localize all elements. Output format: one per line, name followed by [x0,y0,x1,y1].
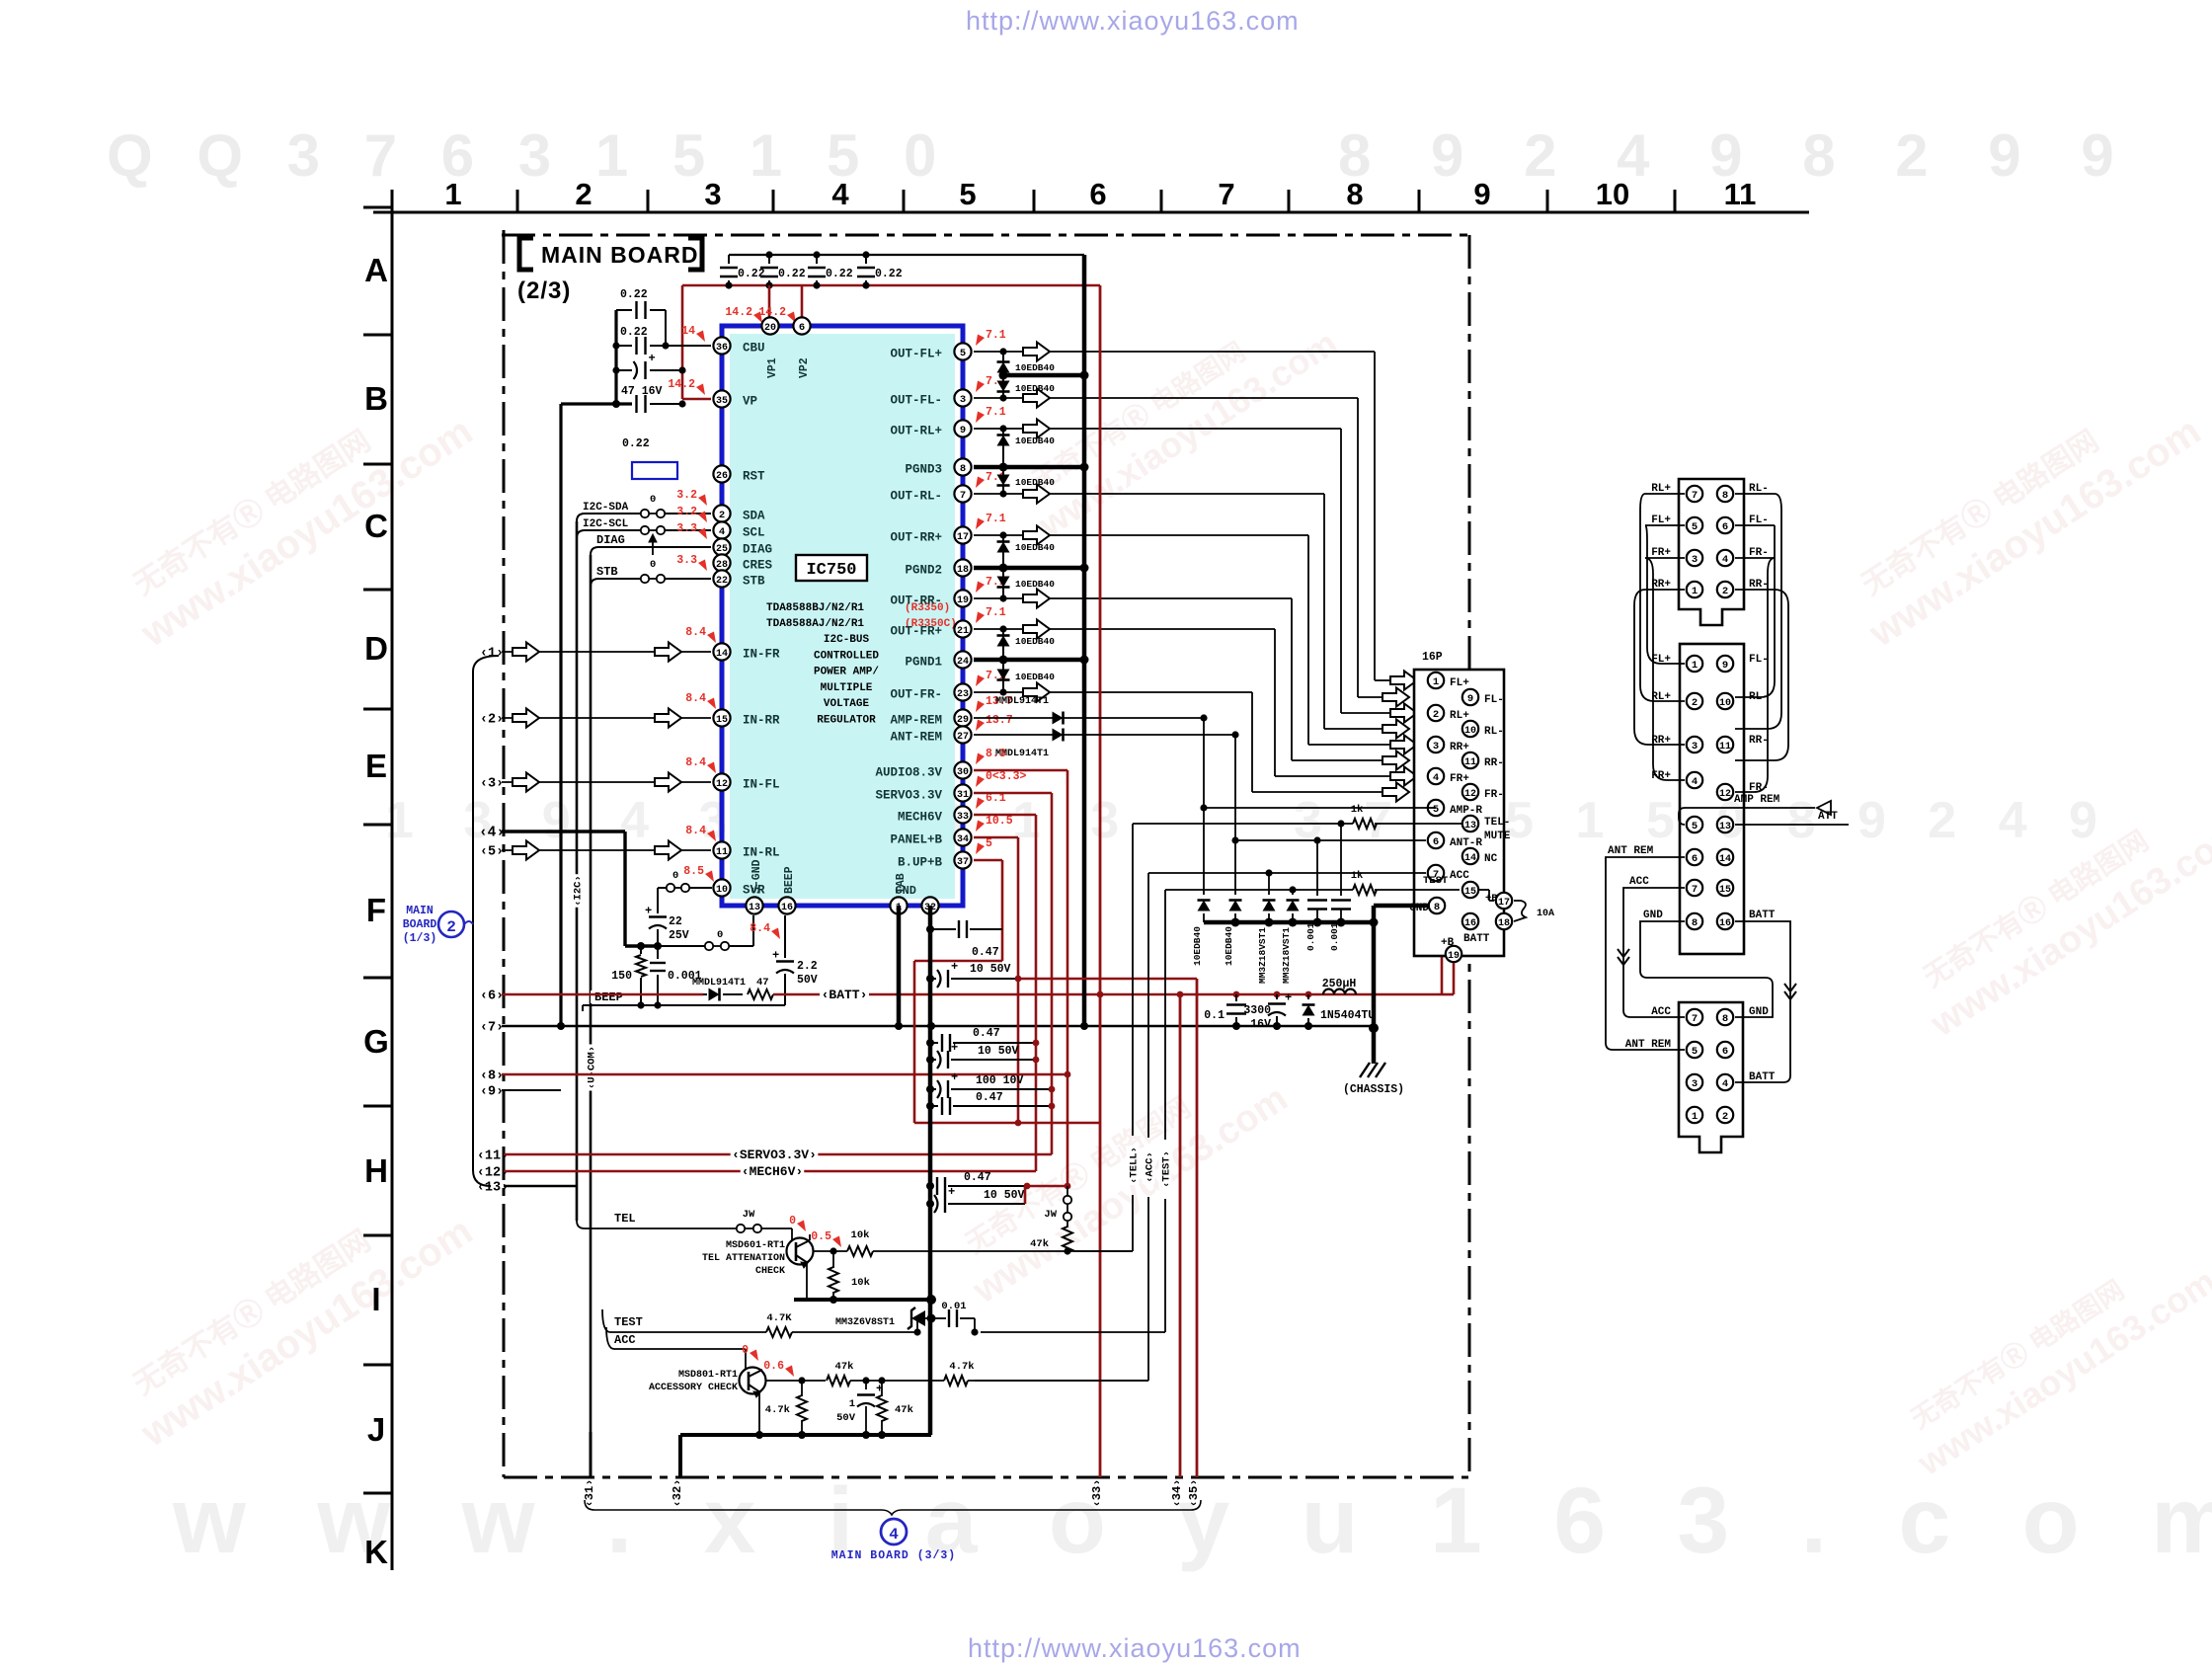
wire output row 7 to connector nest [974,628,1275,630]
red value 0.5 [832,1236,841,1248]
IC750 pin 35 VP [713,390,730,407]
bank diode 10EDB40 #1 [1203,718,1205,895]
wire DIAG to pin 25 [591,547,711,555]
svg-text:VP: VP [743,395,757,409]
red value 8.4 IN-RL [707,831,716,842]
svg-text:OUT-FR-: OUT-FR- [890,688,942,702]
transistor Q MSD801-RT1 ACC [740,1368,766,1394]
svg-text:7: 7 [1692,490,1698,502]
svg-text:ACC: ACC [1450,870,1469,882]
red value 0<3.3> SERVO3.3V [976,776,985,788]
IC750 pin 26 RST [713,465,730,482]
wire CBU to pin 36 [666,345,711,347]
svg-text:‹32›: ‹32› [671,1479,684,1508]
main board dash-dot border [502,234,1469,237]
bank zener MM3Z18VST1 #2 [1292,890,1294,895]
wire VP2 drop to pin 6 [801,285,804,326]
red value 0 TEL [797,1221,806,1232]
svg-text:0: 0 [672,870,678,882]
svg-text:0.47: 0.47 [973,1027,1000,1040]
svg-text:18: 18 [957,565,969,576]
svg-text:FR-: FR- [1749,782,1769,794]
svg-text:RR+: RR+ [1450,742,1469,753]
svg-text:28: 28 [716,560,728,571]
thick PGND2 bus wire [974,566,1084,571]
red value 3.3 DIAG [698,528,707,540]
svg-text:10EDB40: 10EDB40 [1015,383,1055,394]
svg-text:BEEP: BEEP [594,990,623,1004]
svg-text:9: 9 [1722,660,1728,672]
watermark diagonal 2 [1011,291,1345,545]
capacitor C 0.22 #1 top [728,255,730,264]
svg-text:‹2›: ‹2› [480,713,504,728]
svg-text:GND: GND [1749,1006,1769,1018]
bottom connector pins 7/8 [1687,1009,1702,1025]
IC750 pin 6 VP2 [793,317,810,334]
svg-text:RL+: RL+ [1450,710,1469,722]
svg-text:FR+: FR+ [1450,773,1469,785]
wire TEL-MUTE row with 1k [1375,823,1461,825]
svg-text:1k: 1k [1351,804,1364,816]
diode MMDL914T1 on ANT-REM [1053,729,1064,742]
wire input group vertical [473,656,499,1186]
svg-text:29: 29 [957,715,969,726]
wire top capacitor bus [729,254,1084,256]
svg-text:DIAG: DIAG [743,543,772,557]
16P pin 7 ACC [1428,865,1444,881]
capacitor 0.47 row3 [926,1102,934,1110]
svg-text:JW: JW [743,1209,755,1221]
bank zener MM3Z18VST1 #1 [1268,873,1270,895]
svg-text:S-GND: S-GND [750,859,763,894]
svg-text:0.22: 0.22 [622,437,650,450]
svg-text:http://www.xiaoyu163.com: http://www.xiaoyu163.com [968,1633,1302,1663]
mirror connector pin 1 [1687,656,1702,672]
svg-text:‹5›: ‹5› [480,845,504,860]
IC750 pin 36 CBU [713,337,730,354]
wire BATT down with chevron [1735,921,1790,1082]
bottom connector pins 3/4 [1687,1074,1702,1090]
svg-text:22: 22 [716,576,728,587]
svg-text:150: 150 [611,970,632,983]
svg-text:17: 17 [957,532,969,543]
svg-text:ANT REM: ANT REM [1608,845,1654,857]
svg-text:10 50V: 10 50V [984,1189,1025,1202]
svg-text:0.5: 0.5 [811,1230,831,1243]
red value 3.3 STB [698,560,707,572]
svg-text:OUT-RL-: OUT-RL- [890,490,942,504]
svg-text:MSD601-RT1: MSD601-RT1 [726,1240,785,1251]
svg-text:CRES: CRES [743,559,773,573]
svg-text:6: 6 [1692,853,1698,865]
svg-text:JW: JW [1044,1209,1057,1221]
wire VP red vertical to pin 35 [681,285,684,399]
wire ANT-REM row [974,734,1235,736]
red value 0 ACC [750,1350,758,1362]
capacitor 0.1 [1235,994,1237,1001]
svg-text:FL-: FL- [1484,694,1504,706]
svg-text:+: + [1285,991,1292,1005]
svg-text:16V: 16V [1250,1018,1271,1031]
mirror connector pin 12 right [1717,784,1733,800]
watermark diagonal 3 [1839,375,2208,656]
svg-text:18: 18 [1498,918,1510,929]
svg-text:RL+: RL+ [1651,691,1671,703]
svg-text:5: 5 [960,348,966,359]
wire output row 1 to connector nest [974,351,1375,353]
svg-text:STB: STB [743,575,765,589]
node dots on top cap bus [765,251,772,258]
svg-text:‹34›: ‹34› [1170,1479,1184,1508]
svg-text:(CHASSIS): (CHASSIS) [1343,1083,1404,1096]
svg-text:8.4: 8.4 [685,692,706,705]
svg-text:15: 15 [1719,885,1731,896]
svg-text:K: K [364,1534,388,1570]
wire output row 8 to connector nest [974,691,1252,693]
svg-text:37: 37 [957,857,969,868]
IC750 pin 1 TAB [890,897,907,913]
red value 5 B.UP+B [976,843,985,855]
svg-text:17: 17 [1498,898,1510,909]
svg-text:‹12›: ‹12› [477,1166,509,1181]
svg-text:14.2: 14.2 [668,378,695,391]
svg-text:(2/3): (2/3) [517,277,571,304]
mirror connector pin 4 [1687,772,1702,788]
svg-text:BATT: BATT [1463,933,1490,945]
svg-text:‹ACC›: ‹ACC› [1145,1151,1156,1183]
red value 14 at CBU [696,331,705,343]
svg-text:DIAG: DIAG [596,533,625,547]
svg-text:8.3: 8.3 [986,748,1006,760]
wire ACC column [1147,873,1149,1138]
chassis ground symbol [1372,1028,1377,1064]
IC750 pin 22 STB [713,570,730,587]
svg-text:AMP REM: AMP REM [1734,794,1780,806]
svg-text:19: 19 [1448,951,1460,962]
svg-text:SCL: SCL [743,526,765,540]
svg-text:3: 3 [1692,554,1698,566]
wire TEL collector row [814,1250,847,1252]
svg-text:14: 14 [1719,854,1731,865]
svg-text:MULTIPLE: MULTIPLE [821,682,873,694]
svg-text:8.5: 8.5 [683,865,704,878]
wire I2C bus vertical [576,521,579,1221]
wire output row 4 to connector nest [974,493,1324,495]
capacitor C 0.22 #3 top [816,255,818,264]
transistor Q MSD601-RT1 TEL [787,1238,814,1265]
capacitor C 0.22 left #1 [616,309,632,311]
diode MMDL914T1 beep [709,989,720,1001]
svg-text:2: 2 [1722,1111,1728,1123]
svg-text:MAIN BOARD: MAIN BOARD [541,242,699,268]
svg-text:8.4: 8.4 [750,922,770,935]
diode MMDL914T1 on AMP-REM [1053,712,1064,725]
svg-text:‹1›: ‹1› [480,647,504,662]
svg-text:I2C-SDA: I2C-SDA [583,502,629,514]
wire AMP-REM row [974,717,1204,719]
svg-text:2: 2 [575,177,592,211]
16P pin 9 FL- [1462,689,1478,705]
16P pin 4 FR+ [1428,768,1444,784]
wire GND32 riser [928,906,933,1435]
red value 3.2 SCL [698,512,707,523]
svg-text:C: C [364,508,388,544]
svg-text:http://www.xiaoyu163.com: http://www.xiaoyu163.com [966,6,1300,36]
svg-text:0.001: 0.001 [1329,922,1340,951]
electrolytic 1 50V ACC [865,1381,867,1389]
svg-text:3: 3 [1692,1078,1698,1090]
svg-text:8: 8 [1346,177,1363,211]
svg-text:7: 7 [1692,1013,1698,1025]
resistor 47 [748,990,773,999]
wire TELL column [1132,824,1134,1136]
svg-text:E: E [365,748,387,784]
red elbow 10 50V H-row [1024,1186,1027,1204]
svg-text:‹4›: ‹4› [479,826,505,841]
svg-text:35: 35 [716,396,728,407]
svg-text:0.22: 0.22 [620,326,648,339]
svg-text:31: 31 [957,790,969,801]
svg-text:MM3Z6V8ST1: MM3Z6V8ST1 [835,1317,895,1328]
red value 0.6 [785,1366,794,1378]
svg-text:2: 2 [1692,697,1698,709]
red rail AUDIO8.3V x1081 [974,769,1067,772]
svg-text:0.47: 0.47 [976,1091,1003,1104]
svg-text:Q Q 3 7 6 3 1 5 1 5 0: Q Q 3 7 6 3 1 5 1 5 0 [107,122,950,189]
resistor 150 [640,946,642,954]
wire VP supply bus dark red [682,284,1100,287]
svg-text:0.22: 0.22 [620,288,648,301]
svg-text:NC: NC [1484,853,1498,865]
svg-text:RL-: RL- [1484,726,1504,738]
red values 7.1 on outputs [976,335,985,347]
svg-text:1: 1 [1692,1111,1698,1123]
svg-text:27: 27 [957,732,969,743]
svg-text:8.4: 8.4 [685,626,706,639]
capacitor 0.01 [931,1317,946,1319]
svg-text:FL+: FL+ [1450,677,1469,689]
IC750 pin 10 SVR [713,879,730,896]
red value 8.4 BEEP [771,928,780,940]
svg-text:TDA8588BJ/N2/R1: TDA8588BJ/N2/R1 [766,602,864,614]
svg-text:7.1: 7.1 [986,329,1006,342]
svg-text:ANT REM: ANT REM [1625,1039,1672,1051]
svg-text:FR-: FR- [1484,789,1504,801]
svg-text:0.47: 0.47 [972,946,999,959]
svg-text:26: 26 [716,471,728,482]
wire BATT bus to +B riser [1441,943,1444,994]
svg-text:3: 3 [704,177,721,211]
svg-text:16: 16 [1719,918,1731,929]
svg-text:‹I2C›: ‹I2C› [573,875,585,907]
svg-text:11: 11 [1719,742,1731,752]
wire long vertical from 47 16V cap down to GND line [559,404,562,1026]
svg-text:47k: 47k [895,1404,913,1416]
svg-text:SERVO3.3V: SERVO3.3V [875,789,942,803]
svg-text:2: 2 [446,918,456,936]
svg-text:4: 4 [1692,776,1698,788]
IC750 pin 2 SDA [713,505,730,521]
svg-text:IN-FL: IN-FL [743,778,780,792]
capacitor 0.47 row2 [926,1039,934,1047]
svg-text:RR-: RR- [1749,735,1769,747]
svg-text:1: 1 [1692,586,1698,597]
svg-text:IC750: IC750 [806,561,856,580]
svg-text:7.1: 7.1 [986,513,1006,525]
red vertical x1195 to <34> [1179,994,1182,1477]
wire ANT-R row [1235,839,1426,841]
svg-text:+: + [645,905,652,918]
svg-text:3: 3 [1433,741,1439,752]
svg-text:ACC: ACC [1651,1006,1671,1018]
svg-text:ACCESSORY CHECK: ACCESSORY CHECK [649,1383,738,1393]
svg-text:5: 5 [1692,821,1698,832]
IC750 pin 11 IN-RL [713,841,730,858]
red value 8.4 IN-RR [707,698,716,710]
bank bus thick [1204,920,1374,925]
red rail SERVO3.3V x1065 [974,792,1052,795]
svg-text:MAIN BOARD (3/3): MAIN BOARD (3/3) [831,1549,956,1562]
electrolytic capacitor left [616,369,632,371]
red vertical power x1114 [1099,285,1102,1477]
svg-text:5: 5 [959,177,976,211]
red rail MECH6V x1049 [974,814,1036,817]
svg-text:‹MECH6V›: ‹MECH6V› [742,1164,803,1179]
svg-text:24: 24 [957,657,969,668]
svg-text:3.2: 3.2 [676,506,697,518]
svg-text:BOARD: BOARD [403,918,437,931]
svg-text:OUT-RR-: OUT-RR- [890,594,942,608]
thick wire pin8 GND to bank [1374,904,1437,909]
svg-text:‹3›: ‹3› [480,777,504,792]
watermark diagonal 6 [1901,777,2212,1045]
svg-text:0.01: 0.01 [941,1301,966,1312]
bottom connector pins 5/6 [1687,1042,1702,1058]
red value 14.2 at VP2 [787,312,796,324]
svg-text:RR-: RR- [1484,757,1504,769]
svg-text:OUT-FR+: OUT-FR+ [890,625,942,639]
bank capacitor 0.001 #2 [1340,824,1342,896]
wire ACC down with chevron [1623,888,1685,1017]
svg-text:D: D [364,630,388,667]
wire SVR jumper [658,887,667,889]
svg-text:8: 8 [1722,490,1728,502]
svg-text:3.3: 3.3 [676,554,697,567]
red rail B.UP+B x1015 [974,859,1002,862]
zener MM3Z6V8ST1 [916,1318,918,1332]
wire VP1 drop to pin 20 [768,285,771,326]
svg-text:16: 16 [1464,918,1476,929]
svg-text:0.22: 0.22 [778,268,806,280]
16P pin 2 RL+ [1428,705,1444,721]
wire 16P pin19 red drop [1453,963,1456,994]
svg-text:+: + [951,1041,958,1055]
svg-text:7.1: 7.1 [986,406,1006,419]
svg-text:0: 0 [650,494,656,506]
circled 2 blue [438,911,464,937]
capacitor C 0.22 left #2 (CBU) [616,345,632,347]
svg-text:10EDB40: 10EDB40 [1015,636,1055,647]
svg-text:3300: 3300 [1243,1004,1271,1017]
svg-text:0: 0 [742,1344,749,1357]
IC750 pin 14 IN-FR [713,643,730,660]
svg-text:4: 4 [831,177,849,211]
svg-text:SDA: SDA [743,510,765,523]
svg-text:0: 0 [717,929,723,941]
wire TEL line [577,1221,737,1228]
svg-text:‹6›: ‹6› [480,990,504,1004]
svg-text:12: 12 [1464,789,1476,800]
svg-text:10EDB40: 10EDB40 [1192,926,1203,966]
wire BEEP line [583,1004,785,1006]
svg-text:AMP-R: AMP-R [1450,805,1482,817]
svg-text:BATT: BATT [1749,1071,1776,1083]
svg-text:‹11›: ‹11› [477,1149,509,1164]
svg-text:REGULATOR: REGULATOR [817,715,876,727]
svg-text:6: 6 [1089,177,1106,211]
electrolytic 3300 16V [1276,994,1278,999]
svg-text:10k: 10k [851,1229,870,1241]
svg-text:15: 15 [1464,887,1476,898]
svg-text:11: 11 [1724,177,1757,211]
IC750 pin 16 BEEP [778,897,795,913]
svg-text:BEEP: BEEP [783,866,796,894]
svg-text:‹U-COM›: ‹U-COM› [587,1046,598,1089]
thick vertical bus x1098 [1082,255,1087,1026]
svg-text:0: 0 [650,559,656,571]
svg-text:‹8›: ‹8› [480,1069,504,1084]
svg-text:OUT-RL+: OUT-RL+ [890,425,942,438]
svg-text:10 50V: 10 50V [970,963,1011,976]
bottom connector box [1679,1002,1743,1152]
svg-text:‹33›: ‹33› [1090,1479,1104,1508]
wire to <31> [590,1432,592,1477]
wire ACC line [606,1327,746,1349]
electrolytic capacitor 22 25V [657,888,659,913]
svg-text:7.1: 7.1 [986,606,1006,619]
svg-text:1: 1 [444,177,461,211]
svg-text:‹7›: ‹7› [480,1021,504,1036]
red value 10.5 PANEL+B [976,821,985,832]
resistor 10k vertical [832,1251,834,1268]
capacitor C 0.22 #2 top [768,255,770,264]
svg-text:10.5: 10.5 [986,815,1013,828]
svg-text:19: 19 [957,595,969,606]
svg-text:+: + [948,1185,955,1199]
wire S-GND node row with jumper [658,945,705,947]
IC750 pin 4 SCL [713,521,730,538]
mirror connector pin 5 [1687,817,1702,832]
thick GND stub into box [1414,904,1429,909]
svg-text:+: + [951,960,958,974]
svg-text:ATT: ATT [1818,811,1838,823]
svg-text:3: 3 [1692,741,1698,752]
svg-text:J: J [367,1411,385,1448]
svg-text:VP2: VP2 [798,357,811,378]
svg-text:1: 1 [1433,676,1439,688]
mirror connector pin 10 right [1717,693,1733,709]
red value 8.3 AUDIO8.3V [976,753,985,765]
svg-text:20: 20 [764,323,776,334]
svg-text:FR+: FR+ [1651,770,1671,782]
wire TEST column [1164,890,1166,1140]
svg-text:A: A [364,252,388,288]
mirror connector pin 6 [1687,849,1702,865]
svg-text:10: 10 [1464,726,1476,737]
IC750 pin 28 CRES [713,554,730,571]
bank capacitor 0.001 #1 [1316,840,1318,896]
mirror connector pin 11 right [1717,737,1733,752]
